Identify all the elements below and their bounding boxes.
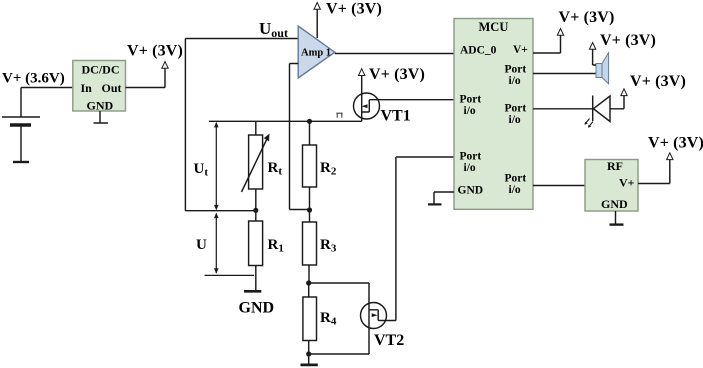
node junction R3/R4/VT2 <box>306 280 311 285</box>
LED emission arrows <box>585 119 593 127</box>
svg-text:V+: V+ <box>619 176 635 190</box>
svg-text:Port: Port <box>460 94 482 106</box>
battery BT1 negative plate <box>10 123 31 126</box>
wire op-amp inverting input <box>290 64 310 210</box>
svg-text:Port: Port <box>505 64 527 76</box>
wire MCU port to speaker <box>533 73 596 75</box>
wire battery top <box>20 88 22 117</box>
wire feedback to Rt/R1 node <box>185 210 255 212</box>
battery BT1 positive plate <box>2 116 40 118</box>
node junction R4/VT2 source <box>306 351 311 356</box>
svg-text:DC/DC: DC/DC <box>82 63 120 77</box>
wire R1 bottom <box>255 266 257 291</box>
power flag V+ (3V) at MCU <box>557 29 563 36</box>
wire MCU GND <box>434 192 454 204</box>
power flag V+ (3V) at speaker <box>589 43 595 50</box>
LED VD1 <box>592 96 594 122</box>
RF module U4 <box>585 160 638 212</box>
svg-text:GND: GND <box>239 300 275 317</box>
svg-text:V+ (3.6V): V+ (3.6V) <box>2 71 65 87</box>
resistor R4 <box>303 297 317 341</box>
transistor VT2 <box>361 303 387 329</box>
svg-text:GND: GND <box>601 197 628 211</box>
svg-text:i/o: i/o <box>464 162 476 174</box>
DC/DC converter U2 <box>73 61 126 112</box>
wire battery bottom <box>20 127 22 162</box>
wire rail to R2 <box>309 121 311 145</box>
thermistor Rt body <box>249 135 263 189</box>
svg-text:Out: Out <box>102 81 122 95</box>
svg-text:Amp 1: Amp 1 <box>301 48 331 59</box>
svg-text:V+ (3V): V+ (3V) <box>369 66 425 83</box>
svg-text:ADC_0: ADC_0 <box>460 45 497 57</box>
ground battery <box>13 161 29 163</box>
svg-text:Port: Port <box>505 103 527 115</box>
node junction R2/R3 <box>307 207 312 212</box>
MCU U3 <box>454 19 533 210</box>
power flag V+ (3V) at VT1 <box>359 69 365 76</box>
resistor R1 <box>249 221 263 266</box>
wire divider top rail <box>209 120 362 122</box>
svg-text:MCU: MCU <box>479 20 509 34</box>
transistor VT1 <box>354 93 380 119</box>
wire Uout horizontal to op-amp input <box>185 38 298 40</box>
thermistor Rt arrow <box>242 139 267 192</box>
power flag V+ (3V) at RF <box>667 153 673 160</box>
dimension arrow Ut <box>215 123 217 208</box>
wire op-amp output to ADC_0 <box>335 53 454 55</box>
label small n <box>336 113 342 118</box>
svg-text:V+: V+ <box>513 44 528 56</box>
svg-text:GND: GND <box>458 185 484 197</box>
wire VT2 gate to MCU port <box>396 157 454 321</box>
wire VT2 source return <box>309 353 369 355</box>
wire node to VT2 drain <box>309 283 369 303</box>
svg-text:Port: Port <box>460 151 482 163</box>
svg-text:V+ (3V): V+ (3V) <box>648 135 703 152</box>
wire battery to DC/DC In <box>21 87 72 89</box>
wire MCU port to RF <box>533 185 585 187</box>
svg-text:RF: RF <box>607 159 623 173</box>
wire R3 bottom <box>308 265 310 283</box>
wire Uout vertical feedback <box>184 39 186 212</box>
ground R4 <box>308 354 310 364</box>
svg-text:V+ (3V): V+ (3V) <box>326 1 382 18</box>
speaker LS1 <box>596 64 602 78</box>
svg-text:i/o: i/o <box>509 114 521 126</box>
wire RF V+ to flag <box>638 160 670 184</box>
wire node to R4 <box>308 283 310 297</box>
wire R2 bottom <box>309 187 311 222</box>
svg-text:V+ (3V): V+ (3V) <box>127 43 183 60</box>
svg-text:In: In <box>81 81 93 95</box>
power flag V+ (3V) at DC/DC output <box>162 62 168 69</box>
resistor R3 <box>303 222 317 265</box>
svg-text:Port: Port <box>505 173 527 185</box>
power flag V+ (3V) at op-amp <box>314 3 320 10</box>
wire speaker V+ <box>593 50 596 66</box>
resistor R2 <box>303 145 317 187</box>
svg-text:U: U <box>196 237 207 253</box>
ground R1 <box>244 290 261 293</box>
wire MCU port to LED <box>533 108 593 110</box>
node junction R2 top <box>307 119 312 124</box>
wire R4 bottom <box>308 341 310 355</box>
svg-text:VT1: VT1 <box>381 108 411 125</box>
node junction Rt/R1 <box>253 208 258 213</box>
svg-text:i/o: i/o <box>509 184 521 196</box>
svg-text:i/o: i/o <box>509 75 521 87</box>
svg-text:V+ (3V): V+ (3V) <box>630 73 686 90</box>
wire MCU V+ to flag <box>533 35 561 53</box>
svg-text:GND: GND <box>87 99 114 113</box>
wire rail to Rt <box>255 121 257 135</box>
dimension arrow U <box>215 214 217 273</box>
svg-text:V+ (3V): V+ (3V) <box>559 9 615 26</box>
power flag V+ (3V) at LED <box>621 89 627 96</box>
ground RF <box>615 211 617 224</box>
op-amp U1 Amp 1 <box>298 26 335 78</box>
svg-text:V+ (3V): V+ (3V) <box>600 32 656 49</box>
ground MCU <box>428 203 442 205</box>
ground DC/DC <box>94 111 109 123</box>
svg-text:VT2: VT2 <box>374 332 404 349</box>
wire VT1 drain to MCU port <box>369 99 454 101</box>
wire DC/DC Out to V+ flag <box>126 68 166 88</box>
wire Rt bottom to node <box>255 189 257 221</box>
svg-text:i/o: i/o <box>464 105 476 117</box>
wire LED to V+ flag <box>610 96 624 109</box>
tick U bottom <box>205 274 255 276</box>
